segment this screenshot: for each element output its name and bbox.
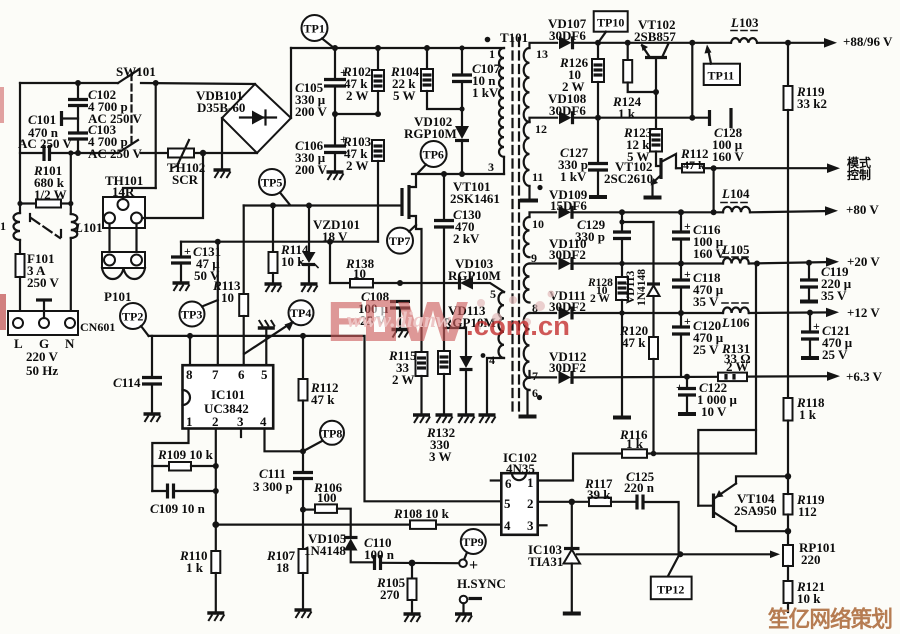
svg-text:D35B-60: D35B-60 <box>197 100 245 115</box>
label TH101 <box>105 173 143 199</box>
label VDB101 <box>196 88 245 115</box>
svg-text:1 k: 1 k <box>626 436 644 451</box>
capacitor C121 <box>801 313 820 358</box>
IC102 pin numbers <box>504 475 534 533</box>
svg-text:控制: 控制 <box>847 167 871 182</box>
node: junction AC top / TH101 drop <box>153 80 159 86</box>
svg-text:30DF2: 30DF2 <box>549 247 586 262</box>
wire: bridge minus to ground <box>221 118 223 170</box>
svg-text:25 V: 25 V <box>693 342 719 357</box>
svg-text:10 k: 10 k <box>281 254 305 269</box>
svg-text:10: 10 <box>221 290 234 305</box>
label R124 <box>612 94 642 121</box>
label R131 <box>721 341 751 374</box>
capacitor C102 <box>68 83 88 133</box>
capacitor C105 <box>324 48 347 114</box>
resistor R128 <box>616 264 628 417</box>
ground (R105) <box>404 614 421 622</box>
svg-text:SW101: SW101 <box>116 64 156 79</box>
resistor R126 <box>592 43 604 118</box>
capacitor C111 <box>293 451 313 509</box>
T101 pin6 phase dot <box>537 395 542 400</box>
svg-text:220 n: 220 n <box>624 480 655 495</box>
terminal H.SYNC + <box>459 557 478 574</box>
svg-text:4: 4 <box>260 414 267 429</box>
label R106 <box>313 480 343 505</box>
svg-text:2 W: 2 W <box>346 158 369 173</box>
capacitor C109 <box>152 484 216 499</box>
label C129 <box>575 217 606 244</box>
label R105 <box>376 575 406 602</box>
svg-text:1 kV: 1 kV <box>560 169 587 184</box>
svg-text:200 V: 200 V <box>295 104 328 119</box>
resistor R119a 33k2 <box>784 43 793 398</box>
wire: +20 rail pre-choke <box>530 262 724 264</box>
test point TP5 <box>259 169 290 205</box>
connector P101 <box>102 224 145 280</box>
svg-text:6: 6 <box>532 386 538 400</box>
diode VD113b <box>647 222 660 337</box>
inductor L105 <box>723 258 749 264</box>
diode VD110 <box>559 257 573 270</box>
svg-text:100 n: 100 n <box>364 547 395 562</box>
wire: +6.3 rail <box>530 371 841 381</box>
label R115 <box>388 348 417 387</box>
capacitor C122 <box>676 377 696 414</box>
connector CN601 <box>8 311 78 335</box>
svg-text:+: + <box>469 557 478 574</box>
resistor R112 (VREF-RtCt) <box>299 336 308 451</box>
capacitor C108 <box>390 302 410 330</box>
svg-text:112: 112 <box>798 504 817 519</box>
wire: pin1 to R116 <box>538 454 622 481</box>
wire: VD103 aux line <box>397 280 459 286</box>
test point TP4 <box>289 300 314 325</box>
inductor L104 <box>723 207 750 212</box>
wire: N vertical down <box>70 153 72 214</box>
label VD110 <box>549 236 587 262</box>
label C119 <box>821 264 852 303</box>
svg-text:47 k: 47 k <box>622 335 646 350</box>
T101 pin1 phase dot <box>485 37 491 43</box>
capacitor C110 <box>375 555 460 570</box>
IC103 TL431 <box>563 502 581 614</box>
wire: pin1 network <box>152 429 188 492</box>
svg-text:+: + <box>684 314 691 328</box>
label R104 <box>390 64 420 103</box>
svg-text:L104: L104 <box>721 186 750 201</box>
wire: pin6 stub <box>491 479 502 481</box>
resistor R124 <box>623 43 659 95</box>
label IC103 <box>528 542 563 569</box>
resistor R106 <box>300 504 351 537</box>
svg-text:50 Hz: 50 Hz <box>26 363 58 378</box>
resistor R120 <box>649 337 658 456</box>
svg-text:+6.3 V: +6.3 V <box>846 369 883 384</box>
label VD103 <box>448 256 501 283</box>
svg-text:7: 7 <box>212 367 219 382</box>
wire: +20 feed down <box>755 264 757 454</box>
svg-text:H.SYNC: H.SYNC <box>457 576 506 591</box>
diode VD112 <box>559 371 573 384</box>
svg-text:UC3842: UC3842 <box>204 401 249 416</box>
node: junction top at C102 <box>75 80 81 86</box>
label R116 <box>619 427 648 451</box>
node: +6.3 junctions <box>684 374 690 380</box>
label VD109 <box>549 187 588 213</box>
label C108 <box>358 289 390 328</box>
svg-text:5: 5 <box>504 496 511 511</box>
watermark EDW <box>327 290 468 354</box>
label mode control <box>847 155 871 182</box>
wire: +12 rail out <box>749 308 839 317</box>
svg-text:+: + <box>184 244 191 258</box>
capacitor C106 <box>324 114 347 172</box>
resistor R101 <box>20 200 71 208</box>
svg-text:35 V: 35 V <box>821 288 847 303</box>
T101 pin6 stub with bar <box>519 390 537 417</box>
wire: pin4 lead <box>265 429 307 455</box>
wire: pin3 stub <box>538 524 547 526</box>
ground (VD113 mid) <box>458 415 475 423</box>
label R117 <box>584 476 613 502</box>
test point TP8 <box>305 421 345 451</box>
svg-text:L101: L101 <box>74 220 102 235</box>
transistor VT103 2SC2610 <box>644 154 677 198</box>
ground (R115) <box>413 415 430 423</box>
svg-text:L: L <box>14 336 23 351</box>
wire: VCC rail <box>181 239 378 245</box>
wire: pin5 stub <box>265 336 267 365</box>
svg-text:+: + <box>684 267 691 281</box>
T101 aux winding 5-4 <box>499 292 505 358</box>
capacitor C114 <box>142 336 162 414</box>
ground (bridge) <box>214 170 231 178</box>
label C116 <box>693 222 726 261</box>
ground (R114) <box>265 284 282 292</box>
label C106 <box>295 138 328 177</box>
T101 pin11 phase dot <box>537 185 542 190</box>
label C101 <box>18 112 73 151</box>
wire: +80 rail pre-choke <box>530 212 724 217</box>
svg-text:6: 6 <box>238 367 245 382</box>
label VT104 <box>734 491 777 518</box>
chassis stub between C102/C103 <box>62 111 79 126</box>
transistor VT104 2SA950 <box>698 454 788 532</box>
svg-text:L103: L103 <box>730 15 759 30</box>
svg-text:C109 10 n: C109 10 n <box>150 501 206 516</box>
resistor R117 <box>589 498 635 507</box>
label L105 <box>721 242 750 257</box>
resistor R121 <box>784 581 793 612</box>
resistor R109 <box>152 462 216 471</box>
ground (VZD101) <box>301 284 318 292</box>
svg-text:270: 270 <box>380 587 400 602</box>
svg-text:1: 1 <box>527 475 534 490</box>
capacitor C118 <box>672 264 691 313</box>
diode VD102 <box>455 126 469 174</box>
IC101 UC3842 <box>183 365 274 428</box>
transistor VT102 2SB857 <box>641 44 668 93</box>
svg-text:TP6: TP6 <box>423 148 444 162</box>
svg-text:笙亿网络策划: 笙亿网络策划 <box>767 606 892 632</box>
svg-text:160 V: 160 V <box>712 149 745 164</box>
label 220V 50Hz <box>26 349 59 378</box>
svg-text:2: 2 <box>527 496 534 511</box>
resistor R131 <box>718 373 747 382</box>
T101 core dashes <box>513 38 520 414</box>
capacitor C130 <box>434 174 454 328</box>
label R123 <box>623 125 653 164</box>
svg-text:CN601: CN601 <box>80 320 115 334</box>
wire: +20 rail out <box>749 257 839 266</box>
svg-text:5: 5 <box>261 367 268 382</box>
test point TP3 <box>180 300 218 327</box>
label R119c <box>796 492 825 519</box>
svg-text:L105: L105 <box>721 242 750 257</box>
label R110 <box>179 548 207 575</box>
svg-text:30DF6: 30DF6 <box>549 103 586 118</box>
diode VD109 <box>559 206 573 219</box>
wire: C128 drop from +88 rail <box>691 43 693 118</box>
test point TP1 <box>302 15 335 48</box>
wire: C105/R102 bottom link <box>332 111 381 117</box>
svg-text:4: 4 <box>504 518 511 533</box>
label VD102 <box>404 114 457 141</box>
svg-text:2: 2 <box>212 414 219 429</box>
capacitor C120 <box>672 313 691 377</box>
capacitor C127 <box>588 118 608 197</box>
label C103 <box>88 122 143 161</box>
capacitor C125 <box>637 495 679 554</box>
label VD112 <box>549 349 587 375</box>
svg-text:R108 10 k: R108 10 k <box>393 506 450 521</box>
label L106 <box>721 303 750 330</box>
svg-text:4: 4 <box>489 353 495 367</box>
label R121 <box>796 579 825 606</box>
label R128 <box>587 277 613 305</box>
capacitor C116 <box>672 212 691 263</box>
label R101 <box>33 163 67 202</box>
svg-text:47 k: 47 k <box>683 158 705 172</box>
node: R101 ends <box>17 201 73 206</box>
T101 secondary winding 9-8 <box>524 264 530 303</box>
wire: FB line to opto <box>216 523 501 525</box>
svg-text:R109 10 k: R109 10 k <box>157 447 214 462</box>
test point TP2 <box>120 303 149 336</box>
wire: left vertical from L line down <box>19 83 21 213</box>
wire: pin8 to VREF rail <box>189 336 191 365</box>
label VT102 <box>634 17 676 44</box>
label R114 <box>280 242 309 269</box>
svg-text:T101: T101 <box>500 30 528 45</box>
svg-text:2 W: 2 W <box>726 359 749 374</box>
label R138 <box>345 256 375 281</box>
zener VZD101 <box>300 206 318 285</box>
capacitor C107 <box>452 48 472 126</box>
wire: top AC line L <box>20 83 255 84</box>
svg-text:1N4148: 1N4148 <box>636 269 648 306</box>
label F101 <box>27 251 60 290</box>
svg-text:250 V: 250 V <box>27 275 60 290</box>
svg-text:15DF6: 15DF6 <box>550 198 587 213</box>
label TH102 <box>167 160 205 187</box>
svg-text:160 V: 160 V <box>693 246 726 261</box>
ground (C106) <box>327 172 344 180</box>
wire: mode control line <box>711 163 840 173</box>
wire: bottom AC line N <box>20 152 257 154</box>
label C127 <box>558 145 589 184</box>
wire: +310V bus <box>291 47 504 49</box>
svg-text:30DF6: 30DF6 <box>549 28 586 43</box>
resistor R102 <box>372 48 384 114</box>
T101 pin labels 13,12,11,10,9,8,7,6 <box>531 47 548 400</box>
label IC101 <box>204 387 249 416</box>
label C105 <box>295 80 328 119</box>
svg-text:220: 220 <box>801 552 821 567</box>
svg-text:39 k: 39 k <box>587 487 611 502</box>
ground (C131) <box>173 283 190 291</box>
label R112b <box>680 146 708 172</box>
svg-text:www.dianw: www.dianw <box>347 307 451 332</box>
svg-text:2 kV: 2 kV <box>453 231 480 246</box>
svg-text:8: 8 <box>186 367 193 382</box>
watermark left edge marks <box>0 87 6 330</box>
resistor R108 <box>410 520 436 529</box>
inductor L103 <box>731 38 757 43</box>
node: junction on bottom AC wire <box>200 150 206 156</box>
T101 secondary winding 12-11 <box>524 122 530 186</box>
label C107 <box>472 61 501 100</box>
ground up (pin5) <box>258 320 275 336</box>
ground (R107) <box>295 610 312 618</box>
resistor R119c 112 <box>784 476 793 545</box>
svg-text:TP3: TP3 <box>181 308 202 322</box>
wire: R128 node link <box>619 219 653 224</box>
wire: +88/96 rail <box>573 38 838 48</box>
resistor R138 <box>330 242 400 288</box>
resistor R110 <box>211 551 220 613</box>
svg-text:13: 13 <box>536 47 548 61</box>
svg-text:3 300 p: 3 300 p <box>253 479 293 494</box>
wire: TH101 top to AC line <box>123 83 156 199</box>
label C125 <box>624 469 655 495</box>
IC101 pin numbers <box>186 367 268 429</box>
resistor R107 <box>299 510 308 610</box>
labels L G N <box>14 336 75 351</box>
label R132 <box>426 425 455 464</box>
label R118 <box>796 395 825 422</box>
svg-text:2SK1461: 2SK1461 <box>450 191 500 206</box>
test point TP9 <box>461 529 486 559</box>
capacitor C128 <box>710 108 732 128</box>
label VD108 <box>548 91 587 118</box>
wire: winding13 to rail <box>530 43 558 48</box>
label VD113 vertical <box>625 269 648 306</box>
svg-text:47 k: 47 k <box>311 392 335 407</box>
T101 pin labels 1,3 <box>488 47 495 174</box>
wire: +12 rail pre-choke <box>530 312 724 314</box>
svg-text:3: 3 <box>527 518 534 533</box>
svg-text:10: 10 <box>353 266 366 281</box>
label C111 <box>253 466 293 494</box>
label C131 <box>193 244 221 283</box>
inductor L106 <box>723 308 749 314</box>
label R102 <box>342 64 371 103</box>
label VT101 <box>450 179 500 206</box>
wire: R116 rect loop <box>698 430 756 454</box>
arrow to TP4 <box>244 321 294 354</box>
svg-text:TP10: TP10 <box>597 16 624 30</box>
resistor R105 <box>408 563 417 614</box>
svg-text:IC101: IC101 <box>211 387 245 402</box>
diode VD103 <box>460 277 505 293</box>
wire: aux winding pin4 return <box>481 353 504 415</box>
T101 secondary winding 7-6 <box>524 378 530 390</box>
node: VT104 rail junctions <box>785 473 791 534</box>
svg-text:5: 5 <box>490 287 496 301</box>
svg-text:TIA31: TIA31 <box>528 554 563 569</box>
label C120 <box>693 318 724 357</box>
svg-text:12: 12 <box>535 122 547 136</box>
svg-text:2SC2610: 2SC2610 <box>604 171 653 186</box>
svg-text:1: 1 <box>489 47 495 61</box>
svg-text:+12 V: +12 V <box>847 305 880 320</box>
label C122 <box>697 380 738 419</box>
svg-text:+88/96 V: +88/96 V <box>843 34 893 49</box>
svg-text:1 kV: 1 kV <box>472 85 499 100</box>
label C128 <box>712 125 745 164</box>
resistor R123 <box>650 92 662 166</box>
resistor R116 <box>622 449 756 458</box>
thermistor TH101 <box>103 197 145 228</box>
svg-text:1 k: 1 k <box>186 560 204 575</box>
wire: VREF rail <box>149 333 501 501</box>
node: +12 junctions <box>619 310 813 316</box>
T101 secondary winding 10-9 <box>524 217 530 257</box>
svg-text:TP12: TP12 <box>657 583 684 597</box>
svg-text:TP11: TP11 <box>708 69 735 83</box>
svg-text:TP1: TP1 <box>304 22 325 36</box>
svg-text:10: 10 <box>532 217 544 231</box>
thermistor TH102 (SCR) <box>168 140 194 168</box>
T101 pin11 stub with bar <box>520 186 538 201</box>
label RP101 <box>799 540 836 567</box>
svg-text:P101: P101 <box>104 289 131 304</box>
diode VD108 <box>559 111 573 124</box>
diode VD111 <box>559 307 573 320</box>
svg-text:3 W: 3 W <box>429 449 452 464</box>
svg-text:10 V: 10 V <box>701 404 727 419</box>
node: bus junctions <box>332 45 465 51</box>
T101 secondary winding 8-7 <box>524 313 530 378</box>
label L103 <box>730 15 759 31</box>
label L104 <box>721 186 751 203</box>
svg-text:TP4: TP4 <box>290 306 311 320</box>
wire: bridge plus up to bus <box>290 48 292 118</box>
label C121 <box>822 323 853 362</box>
svg-text:+: + <box>684 219 691 233</box>
diode VD105 <box>344 538 372 563</box>
label C110 <box>364 535 395 562</box>
svg-text:SCR: SCR <box>172 172 199 187</box>
svg-text:200 V: 200 V <box>295 162 328 177</box>
CN601 earth pin bar <box>36 300 52 318</box>
svg-text:RGP10M: RGP10M <box>404 126 457 141</box>
resistor R113 <box>239 206 248 366</box>
svg-text:2SB857: 2SB857 <box>634 29 676 44</box>
svg-text:220 V: 220 V <box>26 349 59 364</box>
